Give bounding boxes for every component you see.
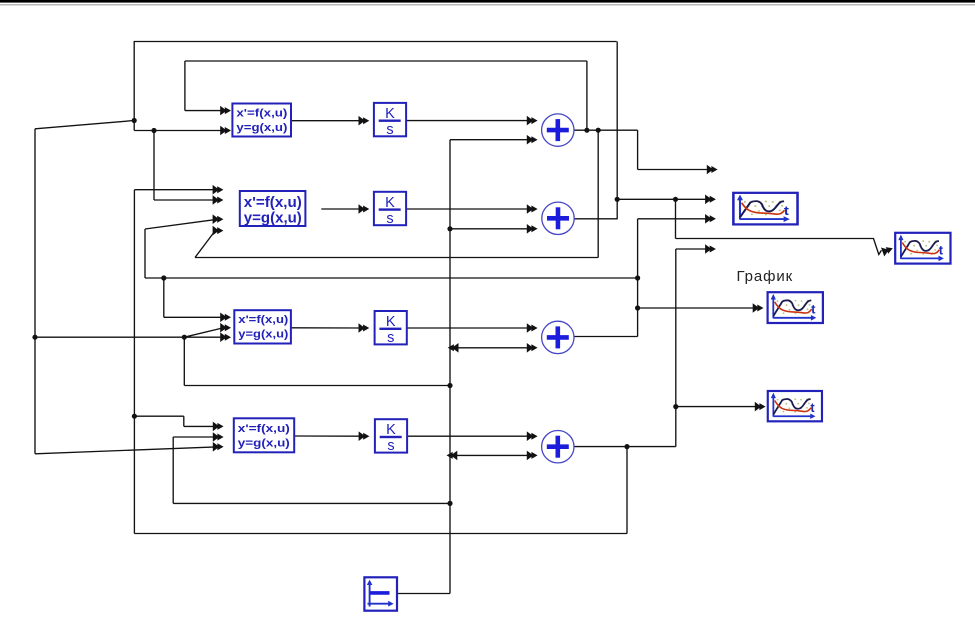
top border bar — [0, 0, 975, 3]
arrow scope1 input 2 — [705, 214, 716, 224]
wire into sum4 input 2 — [450, 454, 530, 456]
wire into sum1 input 2 — [450, 139, 530, 141]
svg-text:s: s — [387, 330, 394, 346]
wire into block B input 1 — [134, 189, 215, 191]
wire inner-rect right riser — [586, 61, 588, 130]
wire sum2-out to right riser — [575, 218, 618, 220]
wire inner-rect top — [185, 60, 587, 62]
wire block A output — [291, 120, 361, 122]
wire diagonal to block B input 4 — [195, 232, 215, 258]
wire diagonal to block B input 3 — [145, 220, 216, 229]
arrow block D input 1 — [213, 422, 224, 432]
arrow block D input 2 — [213, 432, 224, 442]
wire into scope3 — [638, 307, 756, 309]
svg-text:x'=f(x,u): x'=f(x,u) — [238, 423, 290, 435]
wire K/s-3 output — [407, 327, 530, 329]
wire step down block D input 1 — [183, 416, 185, 426]
state-space block C — [234, 310, 291, 343]
wire far-left vertical bus — [34, 129, 36, 454]
wire row2 return horizontal — [195, 257, 598, 259]
junction scope4 branch — [673, 404, 678, 409]
svg-text:y=g(x,u): y=g(x,u) — [236, 122, 287, 134]
summing junction sum2 — [542, 202, 574, 234]
arrow sum4 input 2 — [527, 451, 538, 461]
wire to block D input 2 run — [173, 502, 450, 504]
state-space block B — [240, 191, 306, 227]
svg-text:s: s — [386, 122, 393, 138]
wire into block B input 2 — [154, 199, 216, 201]
svg-text:s: s — [387, 438, 394, 454]
junction feedback row3 branch — [635, 275, 640, 280]
wire outer-rect left drop — [133, 42, 135, 131]
arrow block A input 1 — [220, 106, 231, 116]
wire to scope1 input 1 — [617, 198, 708, 200]
wire riser to block D input 2 — [172, 437, 174, 503]
junction block D input-1 branch — [132, 414, 137, 419]
wire into block C input 1 — [164, 316, 223, 318]
wire into block D input 1 — [184, 425, 216, 427]
integrator K/s 4 — [375, 419, 407, 454]
junction scope1-in1 branch on riser — [615, 197, 620, 202]
scope block 4 — [768, 391, 822, 421]
junction block-B branch on A-in2 line — [151, 128, 156, 133]
junction row3 drop on riser — [447, 383, 452, 388]
wire drop from blockC junction — [183, 337, 185, 385]
wire tap stub row1 — [638, 169, 710, 171]
wire sum4-out riser — [675, 249, 677, 447]
junction far-left bus to block C — [32, 335, 37, 340]
arrow block C input 3 — [220, 332, 231, 342]
wire constant output — [397, 593, 450, 595]
junction block C input-1 branch — [161, 275, 166, 280]
svg-text:y=g(x,u): y=g(x,u) — [238, 437, 290, 449]
wire to constant riser (row3) — [184, 385, 450, 387]
arrow block B input 4 — [213, 226, 224, 236]
arrow K/s-3 input — [359, 323, 370, 333]
junction scope3 branch — [635, 305, 640, 310]
wire block B output — [321, 208, 361, 210]
summing junction sum4 — [542, 431, 574, 463]
wire sum4-out — [574, 446, 676, 448]
wire riser to block B input 3 — [144, 229, 146, 278]
arrow sum2 input 2 — [527, 224, 538, 234]
wire sum1-out — [574, 129, 637, 131]
wire diagonal to far-left bus — [35, 121, 134, 129]
wire into scope1 input 2 — [638, 218, 708, 220]
junction sum1-out second branch — [596, 128, 601, 133]
svg-text:y=g(x,u): y=g(x,u) — [238, 329, 288, 341]
integrator K/s 2 — [374, 192, 406, 227]
wire K/s-4 output — [407, 435, 530, 437]
wire toward block D input 1 — [134, 415, 183, 417]
summing junction sum3 — [542, 321, 574, 353]
svg-text:s: s — [386, 211, 393, 227]
scope block 1 — [733, 193, 797, 225]
arrow block A input 2 — [220, 126, 231, 136]
wire diagonal to block C input 2 — [184, 328, 222, 337]
wire sum3 riser — [637, 219, 639, 337]
junction sum1-out inner-rect branch — [584, 128, 589, 133]
junction sum2 input-2 branch — [447, 226, 452, 231]
wire K/s-1 output — [406, 120, 529, 122]
wire into sum2 input 2 — [450, 228, 530, 230]
svg-text:y=g(x,u): y=g(x,u) — [244, 211, 302, 227]
tap arrow sum4 feed — [447, 451, 458, 461]
wire long diagonal to block D input 3 — [35, 447, 216, 454]
junction sum4-out bottom branch — [624, 444, 629, 449]
arrow K/s-2 input — [359, 204, 370, 214]
wire sum3-out — [574, 336, 637, 338]
arrow sum1 input 1 — [527, 116, 538, 126]
integrator K/s 3 — [375, 311, 407, 346]
state-space block D — [234, 418, 294, 452]
junction blockC diag/drop — [182, 335, 187, 340]
arrow sum3 input 2 — [527, 343, 538, 353]
svg-text:x'=f(x,u): x'=f(x,u) — [244, 195, 302, 211]
top rule line — [0, 3, 975, 6]
wire drop to block C input 1 — [163, 278, 165, 317]
wire into block A input 1 — [185, 110, 223, 112]
arrow sum2 input 1 — [527, 204, 538, 214]
junction row4 drop on riser — [447, 501, 452, 506]
tap arrow sum3 feed — [448, 343, 459, 353]
junction scope2 branch — [673, 197, 678, 202]
state-space block A — [232, 104, 291, 137]
arrow K/s-1 input — [359, 116, 370, 126]
wire into scope4 — [676, 406, 758, 408]
arrow scope1 input 1 — [705, 195, 716, 205]
scope block 3 (График) — [768, 292, 823, 323]
wire long run to block C input 3 — [35, 336, 223, 338]
arrow tap stub row2-right — [705, 244, 716, 254]
arrow block D input 3 — [213, 442, 224, 452]
wire left bus vertical (blockB/D col) — [133, 190, 135, 534]
scope block 2 — [895, 233, 950, 264]
wire drop to bottom bus — [626, 447, 628, 534]
wire into block D input 2 — [173, 436, 216, 438]
wire block C output — [291, 327, 361, 329]
svg-text:x'=f(x,u): x'=f(x,u) — [236, 108, 287, 120]
wire tap stub row2-right — [676, 248, 708, 250]
wire constant riser — [449, 140, 451, 594]
wire block D output — [294, 435, 361, 437]
arrow K/s-4 input — [359, 431, 370, 441]
arrow sum3 input 1 — [527, 323, 538, 333]
svg-text:x'=f(x,u): x'=f(x,u) — [238, 314, 288, 326]
arrow scope3 input — [753, 303, 764, 313]
arrow block C input 2 — [220, 323, 231, 333]
arrow sum1 input 2 — [527, 135, 538, 145]
wire into sum3 input 2 — [450, 347, 530, 349]
summing junction sum1 — [542, 114, 574, 146]
svg-text:График: График — [737, 268, 794, 285]
wire sum1-out drop to tap — [637, 130, 639, 169]
wire long run to scope2 with kink — [676, 239, 882, 255]
wire K/s-2 output — [406, 208, 529, 210]
arrow scope2 input — [881, 244, 894, 257]
wire bottom bus horizontal — [134, 533, 627, 535]
arrow block B input 1 — [213, 185, 224, 195]
wire mid feedback bus — [145, 277, 638, 279]
arrow block B input 2 — [213, 195, 224, 205]
wire drop to block B input 2 — [153, 131, 155, 201]
wire into block A input 2 — [134, 130, 223, 132]
wire drop from sum1-out to row2 return — [597, 130, 599, 257]
arrow sum4 input 1 — [527, 431, 538, 441]
arrow scope4 input — [755, 402, 766, 412]
constant source block — [364, 577, 397, 610]
arrow tap stub row1 — [707, 165, 718, 175]
wire inner-rect left drop — [184, 61, 186, 111]
junction outer-left diag branch — [132, 118, 137, 123]
integrator K/s 1 — [374, 103, 406, 138]
wire outer-rect right riser — [616, 42, 618, 220]
arrow block B input 3 — [213, 214, 224, 224]
wire drop toward scope2 — [675, 199, 677, 238]
wire outer-rect top — [134, 41, 617, 43]
arrow block C input 1 — [220, 313, 231, 323]
